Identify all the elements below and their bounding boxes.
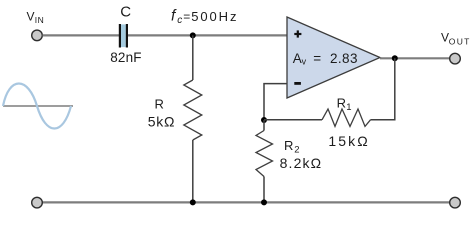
node A junction dot (input to R) (190, 32, 196, 38)
terminal Vout (450, 53, 461, 64)
svg-text:V: V (27, 9, 35, 23)
wire op-amp output (380, 57, 450, 59)
resistor R1 (322, 109, 371, 126)
svg-text:f: f (171, 8, 177, 25)
svg-text:5kΩ: 5kΩ (148, 114, 175, 130)
terminal ground right (450, 197, 461, 208)
capacitor C plate left (119, 24, 121, 48)
svg-text:R: R (155, 97, 164, 112)
op-amp plus input symbol (294, 30, 301, 37)
svg-text:=: = (313, 51, 321, 66)
capacitor C plate right (126, 24, 128, 48)
capacitor C dielectric fill (121, 24, 126, 47)
op-amp U1 body (287, 17, 380, 98)
svg-text:R: R (284, 138, 293, 153)
svg-text:2.83: 2.83 (330, 51, 358, 66)
svg-text:c: c (177, 15, 182, 26)
svg-text:8.2kΩ: 8.2kΩ (280, 155, 323, 171)
wire node B down to resistor R2 (263, 120, 265, 131)
wire minus input to feedback node (264, 84, 288, 120)
wire resistor R1 to output node (371, 58, 395, 120)
svg-text:82nF: 82nF (110, 50, 142, 65)
svg-text:IN: IN (35, 15, 45, 25)
node output junction dot (392, 55, 398, 61)
resistor R2 (256, 131, 273, 177)
svg-text:500Hz: 500Hz (191, 9, 238, 24)
node R to rail junction dot (190, 199, 196, 205)
svg-text:R: R (337, 95, 346, 110)
ground rail wire (43, 201, 450, 203)
wire junction down to resistor R (192, 35, 194, 80)
svg-text:C: C (120, 4, 131, 21)
terminal ground left (32, 197, 43, 208)
svg-text:1: 1 (346, 102, 351, 113)
sine wave source icon (3, 84, 71, 129)
wire resistor R to ground rail (192, 140, 194, 202)
svg-text:A: A (293, 51, 302, 66)
wire resistor R2 to ground rail (263, 177, 265, 203)
svg-text:=: = (183, 10, 190, 24)
sine wave source icon baseline (3, 105, 73, 107)
wire node B to resistor R1 (264, 119, 322, 121)
node R2 to rail junction dot (261, 199, 267, 205)
svg-text:v: v (302, 57, 307, 67)
svg-text:OUT: OUT (449, 36, 471, 46)
op-amp minus input symbol (294, 82, 301, 85)
svg-text:15kΩ: 15kΩ (328, 133, 369, 149)
node B feedback junction dot (261, 117, 267, 123)
wire capacitor to op-amp plus input (128, 34, 288, 36)
resistor R (184, 80, 202, 140)
wire Vin to capacitor (43, 34, 120, 36)
terminal Vin (32, 30, 43, 41)
